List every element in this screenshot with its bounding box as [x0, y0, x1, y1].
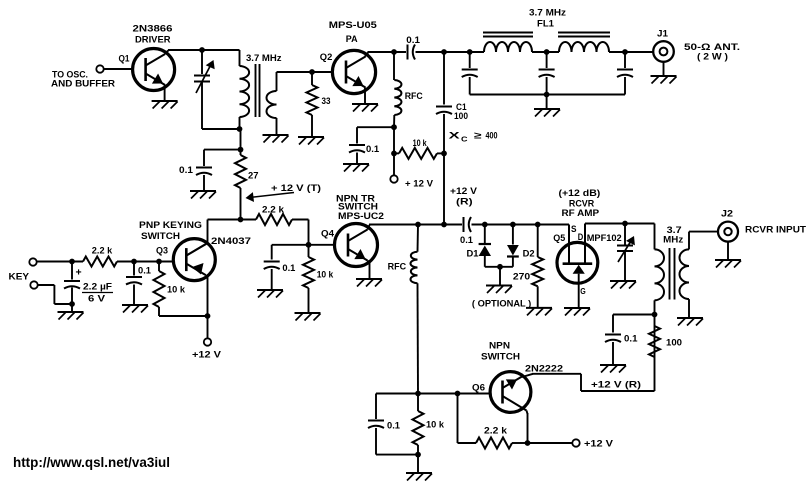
resistor 100 — [649, 326, 660, 357]
label +12 V (Q3) — [192, 350, 222, 361]
wire 2.2k to Q4 base — [292, 220, 309, 245]
resistor 27 — [235, 150, 246, 220]
label Xc >= 400 — [449, 131, 498, 144]
ground R33 — [298, 137, 324, 145]
wire Q4 collector — [368, 225, 463, 230]
label Q5 — [553, 233, 566, 244]
capacitor 0.1 (bottom) — [368, 421, 384, 429]
svg-text:SWITCH: SWITCH — [141, 231, 180, 242]
label MPS-UC2 — [338, 211, 384, 222]
wire Q3 emitter down — [207, 276, 209, 338]
label SWITCH (Q3) — [141, 231, 180, 242]
svg-text:(+12 dB): (+12 dB) — [559, 188, 601, 199]
label S — [571, 224, 577, 235]
resistor 10 k (bottom) — [413, 394, 424, 455]
ground J2 — [715, 242, 741, 268]
wire T2 sec to J2 — [689, 231, 718, 233]
label 100 — [666, 337, 682, 348]
svg-text:D2: D2 — [523, 249, 535, 260]
label (2 W) — [697, 51, 728, 62]
ground T2 secondary — [677, 318, 703, 326]
ground diodes — [486, 267, 512, 293]
wire Q4 base — [272, 244, 335, 246]
svg-text:2.2 µF: 2.2 µF — [83, 281, 112, 292]
svg-text:X: X — [449, 131, 461, 142]
node varcap2 — [622, 221, 628, 227]
wire T2 bottom to cap — [613, 315, 655, 333]
resistor 10 k (Q4 base) — [303, 245, 314, 313]
label RF AMP — [562, 208, 600, 219]
label 270 — [513, 271, 530, 282]
ground 270 — [526, 308, 552, 316]
svg-text:C: C — [461, 137, 468, 144]
label AND BUFFER — [51, 78, 115, 89]
wire RX row — [472, 224, 570, 226]
arrow to +12V(T) node — [246, 192, 295, 202]
wire Q6 base — [418, 393, 490, 395]
diode D1 — [479, 225, 491, 267]
svg-text:100: 100 — [666, 337, 682, 348]
svg-text:+: + — [76, 267, 82, 279]
ground key cap — [122, 285, 148, 313]
label J2 — [721, 209, 733, 220]
label 0.1 (PA bypass) — [366, 144, 380, 155]
svg-text:10 k: 10 k — [426, 420, 445, 431]
resistor 2.2 k (key) — [83, 257, 117, 267]
svg-text:RFC: RFC — [388, 262, 407, 273]
svg-text:400: 400 — [486, 131, 498, 142]
label + (polarity) — [76, 267, 82, 279]
terminal +12V (Q3) — [204, 338, 211, 345]
svg-text:MPS-U05: MPS-U05 — [329, 20, 378, 31]
svg-text:(R): (R) — [456, 196, 473, 207]
node Q6 collector / 2.2k — [525, 440, 531, 446]
wire 2.2k to Q3 base — [117, 261, 174, 263]
label 27 — [248, 170, 259, 181]
label TO OSC. — [52, 69, 88, 80]
node bypass 0.1 / R27 — [238, 147, 244, 153]
wire RFC1 to 10k node — [393, 127, 395, 153]
wire Q6 emitter to +12V(R) — [522, 374, 655, 391]
wire key to 2.2k — [37, 261, 83, 263]
svg-text:G: G — [580, 286, 586, 296]
node key bypass cap — [131, 259, 137, 265]
label Q2 — [320, 52, 333, 63]
variable capacitor (RX tune) — [617, 224, 635, 282]
svg-text:3.7 MHz: 3.7 MHz — [529, 8, 566, 19]
node Q2 base / R33 — [309, 69, 315, 75]
svg-text:PNP KEYING: PNP KEYING — [139, 220, 202, 231]
capacitor 0.1 (key) — [126, 262, 142, 285]
wire to bypass cap — [204, 150, 241, 166]
svg-text:Q2: Q2 — [320, 52, 333, 63]
label MPS-U05 — [329, 20, 378, 31]
capacitor 0.1 (PA output) — [408, 45, 416, 60]
wire RFC1 bottom to PA bypass — [357, 127, 394, 143]
svg-text:Q3: Q3 — [156, 246, 168, 257]
svg-text:AND BUFFER: AND BUFFER — [51, 78, 115, 89]
ground T1 secondary — [263, 135, 289, 143]
resistor 10 k (Q3 base) — [154, 262, 165, 317]
capacitor 0.1 (RX series) — [464, 217, 472, 232]
terminal +12V (PA) — [390, 175, 397, 182]
svg-text:27: 27 — [248, 170, 259, 181]
label 100 (C1) — [454, 111, 468, 122]
svg-text:2N2222: 2N2222 — [525, 363, 563, 374]
label ( OPTIONAL ) — [472, 299, 531, 310]
connector J1 — [653, 41, 674, 62]
inductor RFC1 — [394, 52, 401, 127]
node elec cap bottom — [69, 301, 75, 307]
node C1 top — [441, 49, 447, 55]
core T2 — [670, 248, 675, 300]
transistor Q1 (2N3866 driver) — [133, 49, 175, 91]
ground FL1 — [534, 95, 560, 117]
capacitor FL1 center — [539, 52, 555, 95]
svg-text:RFC: RFC — [405, 91, 423, 102]
svg-text:0.1: 0.1 — [460, 235, 474, 246]
node Q3 base 10k — [156, 259, 162, 265]
inductor FL1-L1 — [484, 42, 532, 52]
label 10 k (Q4 base) — [317, 269, 334, 280]
label 2N4037 — [211, 236, 251, 247]
label 2.2 k (Q6) — [484, 425, 508, 436]
node 27 / 2.2k / Q3 collector — [238, 217, 244, 223]
capacitor 0.1 (RX bias) — [605, 335, 621, 343]
label J1 — [657, 29, 669, 40]
svg-text:RF AMP: RF AMP — [562, 208, 600, 219]
svg-text:Q4: Q4 — [321, 229, 335, 240]
wire L2 to J1 — [609, 51, 654, 53]
svg-text:RCVR INPUT: RCVR INPUT — [745, 224, 806, 235]
svg-text:33: 33 — [322, 96, 331, 107]
wire C1 bottom — [443, 114, 445, 225]
svg-text:0.1: 0.1 — [366, 144, 380, 155]
ground Q1 emitter — [152, 85, 178, 109]
label Q1 — [119, 53, 131, 64]
transistor Q4 (MPS-U02) — [335, 224, 378, 267]
label PNP KEYING — [139, 220, 202, 231]
node D2 — [510, 222, 516, 228]
ground RX bias cap — [600, 342, 626, 373]
node T2 primary bottom — [652, 312, 658, 318]
diode D2 — [507, 225, 519, 267]
node Q6 base / 2.2k — [455, 391, 461, 397]
ground J1 — [651, 62, 677, 84]
svg-text:0.1: 0.1 — [387, 420, 401, 431]
wire Q3 collector up — [186, 220, 207, 256]
label D2 — [523, 249, 535, 260]
wire 2.2k column — [458, 394, 477, 444]
ground PA bypass — [343, 153, 369, 172]
node FL1 center top — [544, 49, 550, 55]
terminal KEY 1 — [29, 258, 36, 265]
svg-text:http://www.qsl.net/va3iul: http://www.qsl.net/va3iul — [13, 455, 170, 470]
svg-text:10 k: 10 k — [167, 285, 186, 296]
label NPN (Q6) — [489, 340, 510, 351]
resistor 10 k (PA bias) — [394, 148, 444, 159]
svg-text:( 2 W ): ( 2 W ) — [697, 51, 728, 62]
label url — [13, 455, 170, 470]
label 10 k (PA bias) — [413, 138, 428, 149]
capacitor FL1 output — [617, 52, 633, 95]
capacitor C1 100 — [436, 107, 452, 115]
svg-text:J1: J1 — [657, 29, 669, 40]
transistor Q3 (2N4037) — [173, 239, 215, 281]
svg-text:10 k: 10 k — [317, 269, 334, 280]
label 3.7 MHz (T1) — [246, 53, 282, 64]
svg-text:( OPTIONAL ): ( OPTIONAL ) — [472, 299, 531, 310]
label G — [580, 286, 586, 296]
ground Q5 gate — [564, 308, 590, 316]
capacitor 0.1 (driver bypass) — [196, 168, 212, 176]
label 0.1 (RX series) — [460, 235, 474, 246]
label 2N3866 — [133, 23, 173, 34]
terminal +12V (Q6) — [572, 439, 579, 446]
wire FL1 bottom — [470, 94, 625, 96]
label DRIVER — [135, 34, 171, 45]
label 2.2 uF — [82, 281, 113, 292]
terminal KEY 2 — [30, 281, 37, 288]
resistor 270 — [532, 225, 543, 308]
label FL1 — [537, 19, 555, 30]
inductor T2 primary — [655, 224, 665, 392]
label (R) upper — [456, 196, 473, 207]
label RCVR — [569, 199, 594, 210]
svg-text:Q6: Q6 — [472, 382, 485, 393]
label RFC (RFC2) — [388, 262, 407, 273]
svg-text:2.2 k: 2.2 k — [484, 425, 508, 436]
label 10 k (bottom) — [426, 420, 445, 431]
label 0.1 (bottom) — [387, 420, 401, 431]
node D1 — [482, 222, 488, 228]
svg-text:D1: D1 — [467, 249, 480, 260]
label + 12 V (T) — [271, 183, 321, 194]
label 0.1 (key) — [138, 266, 152, 277]
label 6 V — [88, 293, 106, 304]
node transformer T1 primary bottom — [237, 126, 243, 132]
svg-text:Q5: Q5 — [553, 233, 566, 244]
label +12 V (R) lower — [591, 380, 641, 391]
wire L1 to L2 — [532, 51, 559, 53]
ground bottom — [406, 455, 432, 481]
label 10 k (Q3 base) — [167, 285, 186, 296]
capacitor 0.1 (Q4 base) — [264, 245, 280, 269]
label 2.2 k (key) — [92, 245, 113, 256]
capacitor 0.1 (PA bypass) — [349, 145, 365, 153]
svg-text:2.2 k: 2.2 k — [262, 204, 285, 215]
transistor Q6 (2N2222) — [490, 372, 531, 413]
wire diode bottoms — [485, 266, 513, 268]
label 2N2222 — [525, 363, 563, 374]
node C1 bottom — [441, 222, 447, 228]
wire bottom cap to gnd node — [376, 428, 418, 455]
label 2.2 k (Q3-Q4) — [262, 204, 285, 215]
label NPN TR — [336, 193, 375, 204]
wire Q1 base — [104, 68, 134, 70]
label +12 V (Q6) — [584, 438, 614, 449]
label SWITCH (Q6) — [481, 351, 520, 362]
ground Q4 base res — [295, 313, 321, 321]
variable capacitor (tune) — [194, 50, 240, 129]
inductor RFC2 — [411, 225, 419, 394]
wire PA cap to C1 node — [416, 51, 485, 53]
connector J2 — [718, 222, 738, 242]
label RFC (RFC1) — [405, 91, 423, 102]
svg-text:0.1: 0.1 — [179, 165, 194, 176]
resistor 33 — [307, 72, 318, 137]
wire C1 top — [443, 52, 445, 105]
svg-text:10 k: 10 k — [413, 138, 428, 149]
label Q3 — [156, 246, 168, 257]
svg-text:FL1: FL1 — [537, 19, 555, 30]
inductor T1 primary — [240, 50, 250, 129]
svg-text:KEY: KEY — [9, 271, 30, 282]
svg-text:+12 V: +12 V — [584, 438, 614, 449]
svg-text:J2: J2 — [721, 209, 733, 220]
svg-text:DRIVER: DRIVER — [135, 34, 171, 45]
label Q6 — [472, 382, 485, 393]
svg-text:S: S — [571, 224, 577, 235]
node Q1 collector / C-var — [199, 47, 205, 53]
label 3.7 MHz (FL1) — [529, 8, 566, 19]
node Q6 base row left — [415, 391, 421, 397]
wire Q2 collector — [365, 52, 406, 56]
svg-text:270: 270 — [513, 271, 530, 282]
svg-text:SWITCH: SWITCH — [481, 351, 520, 362]
svg-text:NPN: NPN — [489, 340, 510, 351]
wire to bottom bypass — [376, 394, 418, 420]
label 0.1 (Q4 base) — [282, 263, 296, 274]
label 33 — [322, 96, 331, 107]
inductor FL1-L2 — [559, 42, 609, 52]
node FL1 cap1 — [467, 49, 473, 55]
node R270 — [535, 222, 541, 228]
node RFC2 top — [415, 222, 421, 228]
wire RX row right (D side) — [585, 223, 655, 225]
svg-text:MHz: MHz — [663, 234, 683, 245]
node C1 / 10k right — [441, 151, 447, 157]
wire Q1 collector — [165, 50, 240, 54]
label D1 — [467, 249, 480, 260]
input terminal (to osc.) — [96, 65, 103, 72]
label PA — [346, 34, 358, 45]
transistor Q2 (MPS-U05 PA) — [332, 50, 375, 93]
inductor T1 secondary — [267, 72, 277, 135]
svg-text:2.2 k: 2.2 k — [92, 245, 113, 256]
label SWITCH (Q4) — [338, 202, 378, 213]
wire 10k to Q3 emitter — [159, 315, 208, 317]
wire 2.2k to +12V — [512, 442, 572, 444]
svg-text:2N4037: 2N4037 — [211, 236, 251, 247]
core FL1-L2 — [558, 33, 610, 37]
node elec cap top — [69, 259, 75, 265]
svg-text:PA: PA — [346, 34, 358, 45]
wire T1 secondary to Q2 base — [277, 71, 334, 73]
ground Q4 emitter — [356, 261, 382, 287]
svg-text:0.1: 0.1 — [138, 266, 152, 277]
node 10k left — [391, 151, 397, 157]
label +12 V (R) upper — [450, 186, 478, 197]
node Q3 emitter / 10k — [205, 313, 211, 319]
label C1 — [456, 102, 467, 113]
svg-text:0.1: 0.1 — [624, 333, 638, 344]
svg-text:3.7 MHz: 3.7 MHz — [246, 53, 282, 64]
node FL1 bottom center — [544, 92, 550, 98]
label MHz (T2) — [663, 234, 683, 245]
svg-text:MPS-UC2: MPS-UC2 — [338, 211, 384, 222]
node RFC1 bottom — [391, 124, 397, 130]
ground varcap2 — [610, 281, 636, 289]
svg-text:+12 V: +12 V — [192, 350, 222, 361]
capacitor FL1 input — [462, 52, 478, 95]
resistor 2.2 k (Q6) — [476, 438, 512, 449]
node diode gnd — [497, 264, 503, 270]
svg-text:0.1: 0.1 — [282, 263, 296, 274]
svg-text:0.1: 0.1 — [406, 35, 420, 46]
wire to +12V terminal — [393, 153, 395, 175]
svg-text:Q1: Q1 — [119, 53, 131, 64]
node bottom ground — [415, 452, 421, 458]
label MPF102 — [587, 233, 622, 244]
wire Q6 collector down — [527, 411, 528, 444]
wire T1 bottom to bypass node — [240, 129, 242, 150]
svg-text:+12 V (R): +12 V (R) — [591, 380, 641, 391]
jfet Q5 (MPF102) — [557, 224, 598, 309]
label 0.1 (driver bypass) — [179, 165, 194, 176]
label (+12 dB) — [559, 188, 601, 199]
label +12 V (PA) — [405, 179, 434, 190]
label 0.1 (PA output) — [406, 35, 420, 46]
svg-text:+ 12 V (T): + 12 V (T) — [271, 183, 321, 194]
node RFC1 top — [391, 49, 397, 55]
svg-text:≥: ≥ — [474, 131, 482, 142]
ground Q4 base cap — [257, 269, 283, 298]
core T1 — [256, 64, 260, 117]
label KEY — [9, 271, 30, 282]
resistor 2.2 k (Q3-Q4) — [256, 214, 292, 225]
ground bypass cap — [190, 175, 216, 199]
svg-text:2N3866: 2N3866 — [133, 23, 173, 34]
label 0.1 (RX bias) — [624, 333, 638, 344]
svg-text:+ 12 V: + 12 V — [405, 179, 434, 190]
svg-text:100: 100 — [454, 111, 468, 122]
wire key2 to cap — [38, 285, 72, 304]
node FL1 right cap — [622, 49, 628, 55]
svg-text:MPF102: MPF102 — [587, 233, 622, 244]
label RCVR INPUT — [745, 224, 806, 235]
label D — [578, 232, 584, 243]
label 50-ohm ANT. — [684, 42, 740, 53]
svg-text:6 V: 6 V — [88, 293, 106, 304]
ground elec cap — [58, 304, 84, 320]
label Q4 — [321, 229, 335, 240]
inductor T2 secondary — [679, 232, 689, 317]
core FL1-L1 — [483, 33, 533, 37]
node Q4 base — [306, 242, 312, 248]
capacitor 2.2 uF electrolytic — [64, 262, 80, 305]
label 3.7 (T2) — [667, 225, 682, 236]
wire Q3 collector row — [208, 219, 257, 221]
ground Q2 emitter — [352, 88, 378, 112]
